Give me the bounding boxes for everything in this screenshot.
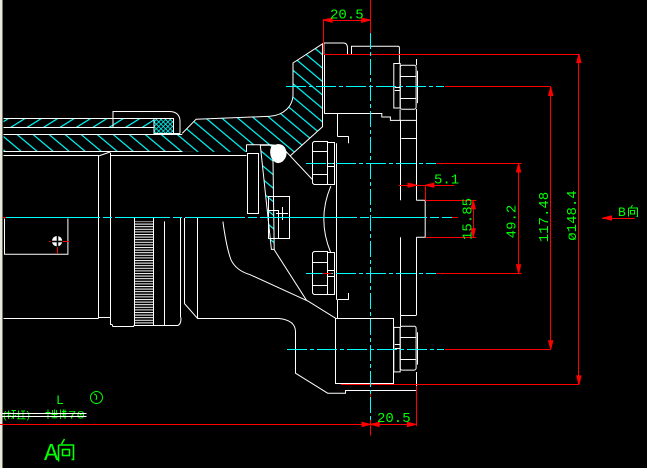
grease fitting cross — [276, 213, 288, 215]
lower bolt head — [313, 252, 335, 295]
top nut and spring washer side view — [394, 59, 418, 109]
bottom flange boss — [336, 319, 394, 384]
upper-left bolt centerline — [306, 163, 436, 165]
lower arm edge diagonal — [274, 249, 307, 300]
red centerline extension below flange — [370, 392, 372, 397]
sleeve wall section hatch — [4, 134, 194, 152]
svg-text:ø148.4: ø148.4 — [565, 190, 581, 240]
sleeve exterior lower — [180, 218, 182, 318]
pilot spigot — [416, 200, 425, 237]
tube wall section hatch — [4, 118, 155, 127]
dim 49.2 — [436, 163, 521, 165]
red tick on lower bolt centerline — [322, 273, 332, 275]
dim 148.4 — [324, 54, 579, 56]
weld blob — [271, 145, 286, 163]
bottom bolt centerline — [287, 349, 444, 351]
top bolt centerline — [286, 86, 444, 88]
dim 20.5 bottom — [0, 424, 416, 426]
red ticks on centerlines — [3, 217, 6, 219]
dim 20.5 top — [323, 19, 325, 54]
dim 5.1 — [399, 185, 455, 187]
lower-left bolt centerline — [306, 273, 436, 275]
svg-text:5.1: 5.1 — [434, 173, 459, 189]
flange plate left face and bolt boss steps — [337, 114, 339, 137]
seal retainer cap — [113, 112, 180, 134]
svg-text:20.5: 20.5 — [330, 8, 364, 24]
svg-text:20.5: 20.5 — [377, 411, 411, 427]
svg-text:L: L — [56, 393, 64, 408]
tube bottom outline and boot steps — [4, 318, 99, 320]
balance weight plate — [5, 219, 68, 255]
seal cap bottom edge — [174, 133, 181, 135]
sleeve wall outline — [4, 134, 194, 136]
main axis centerline — [3, 217, 452, 219]
bolt seat chamfer line — [281, 146, 313, 180]
svg-text:117.48: 117.48 — [537, 192, 553, 242]
flange top plate — [352, 46, 400, 64]
svg-text:49.2: 49.2 — [505, 205, 521, 239]
top bump cap — [324, 43, 348, 54]
seal cross-section — [154, 119, 174, 134]
spider center block — [269, 197, 290, 239]
green circle glyph — [91, 392, 103, 404]
svg-text:A: A — [44, 441, 59, 468]
svg-text:15.85: 15.85 — [461, 198, 477, 240]
dim 15.85 — [425, 200, 476, 202]
B direction leader arrow — [602, 218, 635, 220]
plate left faces double line — [322, 54, 324, 126]
upper bolt head — [313, 142, 335, 185]
dim 117.48 — [445, 86, 551, 88]
svg-text:B: B — [618, 205, 626, 220]
web concave curve between bolts — [324, 186, 331, 253]
spider trunnion wedge hatch — [260, 145, 274, 249]
bottom nut and spring washer side view — [394, 326, 418, 390]
yoke lower exterior profile — [198, 319, 417, 394]
shaft step verticals — [98, 156, 100, 319]
strikethrough lines over text — [2, 413, 87, 415]
yoke trumpet and upper arm section hatch — [182, 43, 323, 156]
plate bottom edge upper — [324, 114, 416, 121]
shaft bore lines — [4, 155, 100, 157]
red axis tail — [452, 217, 458, 219]
flange vertical centerline — [370, 33, 372, 420]
target cross red — [63, 241, 70, 243]
tube wall outline — [4, 118, 155, 120]
plug weld target circle — [52, 236, 62, 246]
spline shaft serrations — [134, 221, 153, 325]
bearing cup rectangle — [248, 154, 259, 214]
yoke window curve — [223, 222, 336, 319]
notch under top nut — [399, 110, 401, 121]
window edge strip left — [0, 0, 3, 468]
